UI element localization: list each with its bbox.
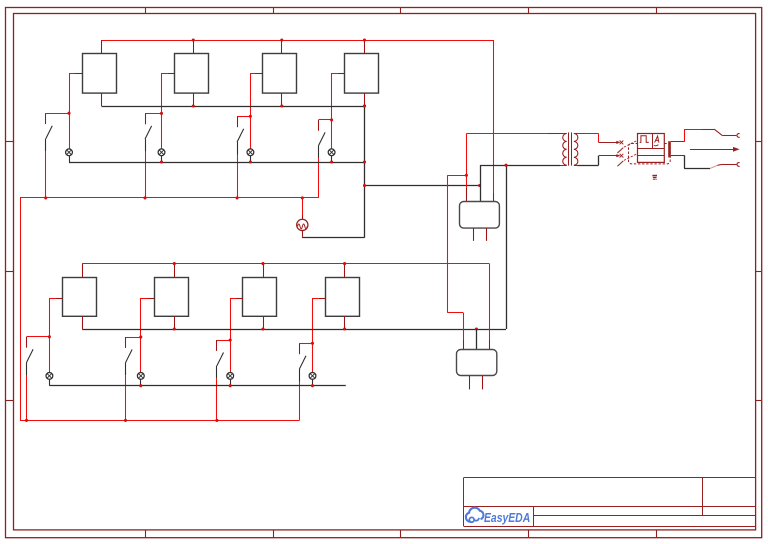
wire left leg — [20, 198, 22, 421]
wire transformer primary bottom — [480, 165, 563, 167]
wire switch bus (row 1) — [20, 197, 319, 199]
wire black riser x365 — [364, 106, 366, 238]
device U3 right bar — [668, 141, 671, 157]
pin top of B4 — [364, 40, 366, 53]
junction dot U1 node — [465, 174, 468, 177]
wire box bottom bus (row 2) — [82, 329, 506, 331]
wire secondary bottom out — [577, 156, 598, 166]
pin top of B2 — [193, 40, 195, 53]
terminal c bottom — [737, 163, 740, 167]
load box B2 — [175, 54, 209, 94]
wire switch S2 to bus — [145, 152, 147, 198]
wire switch S5 to bus — [26, 375, 28, 420]
pin bottom of B8 — [344, 316, 346, 329]
pin left of B8 wire — [313, 298, 326, 373]
switch S4 link wire — [319, 119, 332, 121]
wire switch bus (row 2) — [20, 420, 299, 422]
lamp L3 — [247, 149, 254, 162]
switch S1 — [46, 113, 53, 151]
switch S3 — [237, 116, 244, 154]
wire switch S4 to bus — [318, 158, 320, 198]
wire branch to U2 — [447, 175, 466, 350]
pin left of B2 wire — [162, 73, 175, 149]
wire U1 pin1 riser — [466, 134, 468, 202]
pin left of B6 wire — [141, 298, 155, 373]
lamp L8 — [309, 373, 316, 386]
load box B4 — [345, 54, 379, 94]
switch S4 — [319, 120, 326, 158]
flow arrow — [690, 147, 740, 152]
wire lamp bus (row 1) — [69, 162, 365, 164]
junction dot x506 — [504, 164, 507, 167]
svg-text:EasyEDA: EasyEDA — [484, 510, 530, 525]
pin left of B4 wire — [332, 73, 345, 149]
wire output bottom — [671, 155, 737, 168]
wire U1 pin2 black — [480, 165, 482, 201]
pin top of B3 — [281, 40, 283, 53]
wire bus row1 to U1 pin3 — [493, 40, 495, 201]
lamp L7 — [227, 373, 234, 386]
pin top of B1 — [101, 40, 103, 53]
wire U2 pin2 black — [476, 329, 478, 350]
switch S6 — [126, 337, 133, 375]
switch S2 — [145, 113, 152, 151]
switch S3 link wire — [237, 116, 250, 118]
switch S2 link wire — [145, 113, 162, 115]
wire switch S1 to bus — [45, 151, 47, 198]
switch S6 link wire — [126, 337, 141, 339]
device U3 label — [652, 175, 657, 180]
transformer T1 — [563, 132, 578, 165]
plug contact arrow bottom — [599, 154, 637, 167]
lamp L1 — [66, 149, 73, 162]
wire top supply bus (row 1) — [102, 40, 494, 42]
title block — [464, 478, 756, 527]
wire transformer primary top — [466, 133, 563, 135]
pin bottom of B1 — [101, 93, 103, 106]
pin top of B5 — [82, 264, 84, 278]
junction dots mid — [363, 104, 481, 187]
switch S7 — [217, 340, 224, 378]
pin left of B1 wire — [69, 73, 82, 149]
pin left of B7 wire — [230, 298, 243, 373]
lamp L4 — [328, 149, 335, 162]
AC source G1 — [297, 198, 308, 238]
pin bottom of B5 — [82, 316, 84, 329]
wire mid horizontal y185 — [365, 185, 480, 187]
terminal c top — [737, 134, 740, 138]
wire switch S8 to bus — [299, 382, 301, 421]
load box B8 — [326, 278, 360, 317]
pin bottom of B4 — [364, 93, 366, 106]
wire top supply bus (row 2) — [82, 263, 489, 265]
pin top of B8 — [344, 264, 346, 278]
lamp L5 — [46, 373, 53, 386]
wire output top — [671, 129, 737, 142]
wire switch S6 to bus — [125, 375, 127, 420]
switch S7 link wire — [217, 340, 230, 342]
load box B5 — [63, 278, 97, 317]
wire AC source to riser — [302, 237, 364, 239]
pin left of B3 wire — [250, 73, 262, 149]
pin bottom of B2 — [193, 93, 195, 106]
lamp L6 — [137, 373, 144, 386]
pin bottom of B6 — [174, 316, 176, 329]
wire switch S7 to bus — [216, 378, 218, 420]
EasyEDA logo — [466, 508, 530, 525]
junction dots row 2 — [25, 262, 478, 422]
dashed enclosure — [629, 144, 671, 164]
load box B1 — [83, 54, 117, 94]
lamp L2 — [158, 149, 165, 162]
load box B7 — [243, 278, 277, 317]
wire lamp bus (row 2) — [49, 385, 345, 387]
wire box bottom bus (row 1) — [102, 106, 365, 108]
pin top of B7 — [263, 264, 265, 278]
pin left of B5 wire — [49, 298, 62, 373]
device U3 (meter box) — [637, 133, 664, 162]
wire bus row2 to U2 pin3 — [489, 264, 491, 350]
wire secondary top out — [577, 134, 598, 143]
component U2 (rounded box) — [457, 350, 497, 390]
switch S5 — [27, 337, 34, 375]
load box B6 — [155, 278, 189, 317]
wire secondary riser x506 — [506, 165, 508, 329]
pin bottom of B7 — [263, 316, 265, 329]
wire switch S3 to bus — [237, 155, 239, 198]
load box B3 — [263, 54, 297, 94]
pin top of B6 — [174, 264, 176, 278]
pin bottom of B3 — [281, 93, 283, 106]
switch S8 — [299, 343, 306, 381]
plug contact arrow top — [599, 141, 637, 154]
switch S5 link wire — [27, 336, 50, 338]
junction dots row 1 — [44, 38, 366, 199]
switch S1 link wire — [46, 113, 69, 115]
component U1 (rounded box) — [460, 202, 500, 241]
switch S8 link wire — [299, 343, 312, 345]
